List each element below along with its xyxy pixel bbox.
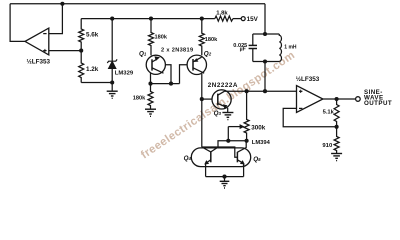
svg-text:5.1k: 5.1k — [323, 110, 335, 116]
node dot wiper — [226, 139, 230, 143]
ground G2 — [145, 109, 156, 116]
watermark freeelectricalsamples.blogspot.com — [139, 49, 297, 161]
node dot feedback — [335, 125, 339, 129]
wire Q4 base slant — [202, 147, 211, 152]
wire bus2 — [81, 18, 215, 20]
wire top bus down to tank — [264, 4, 266, 34]
op-amp U2 half LF353 — [297, 86, 323, 113]
svg-text:OUTPUT: OUTPUT — [364, 100, 392, 107]
LM394 package outline — [191, 148, 250, 167]
ground G3 — [220, 181, 230, 188]
node dot tank bottom — [263, 59, 267, 63]
svg-text:½LF353: ½LF353 — [27, 57, 51, 65]
op-amp U1 half LF353 — [25, 28, 49, 55]
LC tank bottom wire — [253, 61, 279, 63]
svg-text:180k: 180k — [155, 35, 168, 41]
svg-text:Q1: Q1 — [139, 51, 147, 58]
ground G5 Q3 — [222, 113, 233, 120]
transistor Q4 — [204, 152, 211, 177]
node dot Q2 180k bus2 — [200, 17, 204, 21]
wire source node — [151, 83, 180, 85]
wire A2 feedback — [283, 108, 336, 126]
resistor 180k Q1 source — [148, 84, 153, 109]
svg-text:2N2222A: 2N2222A — [208, 82, 238, 89]
node dot Q3 base — [200, 97, 204, 101]
node dot zener bus2 — [110, 17, 114, 21]
svg-text:Q3: Q3 — [214, 110, 222, 117]
node dot top bus — [60, 2, 64, 6]
wire emitter rail — [206, 176, 244, 178]
node dot opamp plus — [79, 49, 83, 53]
svg-text:1.8k: 1.8k — [216, 11, 228, 17]
potentiometer 300k — [228, 91, 249, 141]
node dot zener bottom — [110, 80, 114, 84]
inductor L1 1mH — [279, 34, 281, 62]
resistor 1.8k — [215, 16, 233, 21]
transistor Q1 — [146, 55, 165, 74]
node dot output — [335, 97, 339, 101]
wire A1 noninverting input — [49, 50, 81, 52]
capacitor C1 0.025uF — [249, 34, 257, 62]
resistor 5.6k — [79, 19, 84, 51]
wire Q1 source down — [150, 73, 152, 84]
svg-text:180k: 180k — [133, 96, 146, 102]
svg-text:5.6k: 5.6k — [86, 32, 99, 39]
node dot pot bottom — [245, 139, 249, 143]
transistor Q2 — [187, 55, 206, 74]
svg-text:µF: µF — [240, 47, 246, 53]
svg-text:910: 910 — [322, 143, 333, 149]
wire A1 feedback left — [10, 4, 25, 42]
svg-text:LM329: LM329 — [115, 71, 134, 77]
wire Q2 gate leg — [180, 65, 188, 84]
wire A2 output — [323, 98, 356, 100]
wire Q1 drain side to lower node — [165, 65, 171, 84]
ground G4 — [331, 154, 342, 161]
wire tank bottom to amp input bus — [264, 62, 266, 92]
svg-text:15V: 15V — [247, 16, 259, 23]
node dot pot top — [245, 89, 249, 93]
svg-text:180k: 180k — [205, 37, 218, 43]
wire W1 collector Q4 node — [211, 141, 247, 152]
transistor Q3 2N2222A — [212, 90, 231, 109]
svg-text:2 x 2N3819: 2 x 2N3819 — [161, 47, 193, 53]
wire W2 base bus LM394 — [202, 147, 238, 157]
svg-text:Q5: Q5 — [253, 156, 261, 163]
wire A1 inverting input from top bus — [49, 4, 63, 34]
node dot tank top — [263, 32, 267, 36]
transistor Q5 — [237, 141, 246, 177]
terminal 15V — [241, 17, 245, 21]
svg-text:1.2k: 1.2k — [86, 66, 99, 73]
resistor 180k Q1 drain — [149, 19, 154, 56]
resistor 180k Q2 drain — [199, 19, 204, 56]
svg-text:½LF353: ½LF353 — [296, 75, 320, 83]
wire 1.2k bottom to zener — [81, 82, 112, 84]
svg-text:Q2: Q2 — [204, 51, 212, 58]
wire top bus — [10, 3, 265, 5]
ground G1 — [107, 91, 118, 98]
terminal output — [356, 97, 361, 102]
svg-text:LM394: LM394 — [252, 140, 271, 146]
resistor 910 — [334, 127, 339, 153]
resistor 1.2k — [79, 51, 84, 83]
wire Q2 source down to Q3 base node — [201, 74, 203, 147]
wire 1.8k to 15V — [233, 18, 241, 20]
wire Q3 emitter to ground — [227, 108, 229, 112]
svg-text:300k: 300k — [251, 124, 266, 131]
node dot Q1 source — [148, 82, 152, 86]
resistor 5.1k — [334, 99, 339, 127]
wire Q3 collector to A2 input — [225, 90, 297, 92]
zener diode D1 LM329 — [107, 19, 117, 91]
svg-text:1 mH: 1 mH — [284, 44, 297, 50]
node dot 180k bus2 — [149, 17, 153, 21]
LC tank top wire — [253, 33, 279, 35]
svg-text:Q4: Q4 — [184, 155, 192, 162]
wire ground stub LM394 — [224, 177, 226, 181]
node dot emitter rail — [222, 175, 226, 179]
node dot drain join — [169, 82, 173, 86]
wire Q3 base — [202, 98, 212, 100]
node dot tank feed — [263, 89, 267, 93]
